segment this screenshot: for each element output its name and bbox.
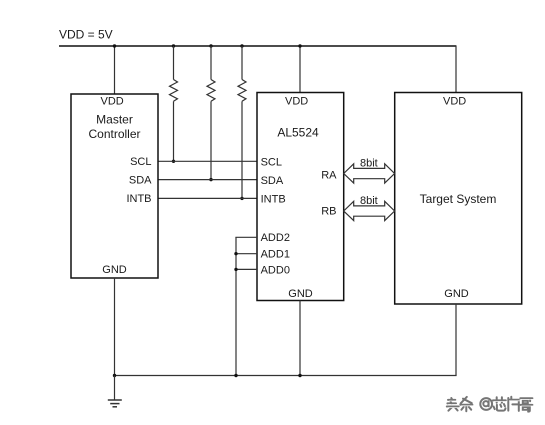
svg-text:ADD1: ADD1 xyxy=(261,249,290,261)
label RB bus width 8bit xyxy=(360,195,378,207)
node R1-SCL junction xyxy=(172,160,175,163)
svg-text:VDD: VDD xyxy=(285,96,308,108)
svg-text:GND: GND xyxy=(444,288,469,300)
svg-text:GND: GND xyxy=(288,288,313,300)
Master Controller block xyxy=(71,94,158,278)
wire SCL xyxy=(158,160,257,162)
wire Master GND down xyxy=(114,278,116,376)
svg-text:INTB: INTB xyxy=(261,193,286,205)
node ADD0 junction xyxy=(234,268,237,271)
bus RB 8bit double arrow xyxy=(344,201,395,220)
svg-text:AL5524: AL5524 xyxy=(277,125,319,139)
node GND rail-ADD bus junction xyxy=(234,374,237,377)
node R3-INTB junction xyxy=(240,197,243,200)
svg-text:Target System: Target System xyxy=(420,192,497,206)
wire GND bottom rail xyxy=(115,374,457,377)
wire riser rail to AL5524 VDD xyxy=(299,46,301,93)
svg-text:RA: RA xyxy=(321,169,337,181)
svg-text:GND: GND xyxy=(102,264,127,276)
svg-text:SDA: SDA xyxy=(261,175,284,187)
wire riser rail to Master VDD xyxy=(114,46,116,94)
svg-text:SCL: SCL xyxy=(261,156,282,168)
Target System block xyxy=(395,93,522,305)
svg-text:8bit: 8bit xyxy=(360,195,378,207)
wire VDD top rail xyxy=(59,45,456,47)
svg-text:RB: RB xyxy=(321,206,336,218)
bus RA 8bit double arrow xyxy=(344,164,395,183)
svg-text:Master: Master xyxy=(96,113,133,127)
node rail-Master junction xyxy=(113,44,116,47)
node R2-SDA junction xyxy=(209,178,212,181)
svg-text:VDD: VDD xyxy=(443,96,466,108)
svg-text:8bit: 8bit xyxy=(360,158,378,170)
svg-text:SDA: SDA xyxy=(129,174,152,186)
svg-text:INTB: INTB xyxy=(126,193,151,205)
wire rail corner down to Target VDD xyxy=(455,45,457,92)
resistor R2 pull-up on SDA xyxy=(207,46,215,180)
svg-text:VDD: VDD xyxy=(101,95,124,107)
wire SDA xyxy=(158,179,257,181)
svg-text:VDD = 5V: VDD = 5V xyxy=(59,28,113,42)
node GND rail-Master junction xyxy=(113,374,116,377)
watermark emboss highlight xyxy=(448,399,534,407)
node rail-R2 junction xyxy=(209,44,212,47)
wire AL5524 GND down xyxy=(299,301,301,376)
label RA bus width 8bit xyxy=(360,158,378,170)
watermark 头条@芯片哥 xyxy=(447,397,533,412)
net VDD label xyxy=(59,28,113,42)
node rail-AL5524 junction xyxy=(298,44,301,47)
ground symbol xyxy=(108,376,122,407)
node GND rail-AL5524 junction xyxy=(298,374,301,377)
node rail-R3 junction xyxy=(240,44,243,47)
wire ADD2 xyxy=(236,236,257,239)
wire INTB xyxy=(158,197,257,199)
wire Target GND down xyxy=(455,304,457,376)
node ADD1 junction xyxy=(234,252,237,255)
wire ADD1 xyxy=(236,253,257,255)
resistor R3 pull-up on INTB xyxy=(238,46,246,198)
svg-text:SCL: SCL xyxy=(130,156,151,168)
svg-text:ADD0: ADD0 xyxy=(261,264,290,276)
resistor R1 pull-up on SCL xyxy=(170,46,178,161)
wire ADD bus vertical xyxy=(235,237,237,375)
node rail-R1 junction xyxy=(172,44,175,47)
IC U1 AL5524 I/O expander xyxy=(257,93,344,301)
svg-text:ADD2: ADD2 xyxy=(261,232,290,244)
wire ADD0 xyxy=(236,268,257,270)
svg-text:Controller: Controller xyxy=(88,127,140,141)
